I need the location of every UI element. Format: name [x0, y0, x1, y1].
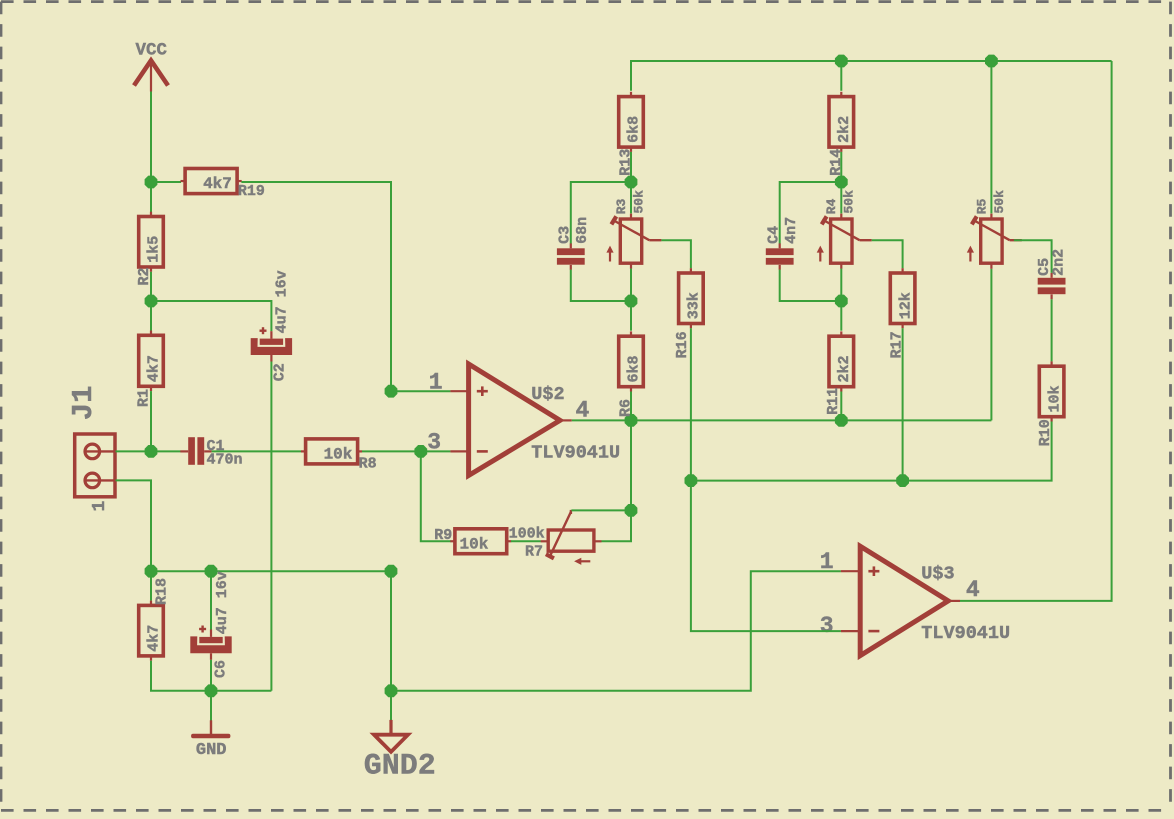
wire node to R2 top: [150, 182, 152, 212]
wire R13 bottom to node: [630, 152, 632, 182]
wire U$2 output rail: [572, 419, 992, 421]
svg-text:1: 1: [90, 501, 110, 512]
svg-text:C4: C4: [766, 226, 783, 244]
resistor R18 4k7: [139, 578, 171, 661]
wire R16 bottom to rail: [690, 328, 692, 480]
junction R3/R6/C3 node: [625, 295, 638, 308]
wire top rail: [631, 61, 1112, 91]
wire U$3 output to top rail: [960, 61, 1112, 601]
svg-text:3: 3: [427, 429, 441, 455]
svg-text:R19: R19: [238, 183, 265, 200]
wire bottom rail: [151, 570, 391, 572]
svg-text:10k: 10k: [1046, 385, 1063, 412]
capacitor C2 4u7 16v: [251, 270, 292, 381]
junction GND2 node: [385, 684, 398, 697]
svg-text:C6: C6: [213, 660, 230, 678]
wire R1 bottom to J1 node: [150, 391, 152, 451]
junction output/R11 node: [835, 414, 848, 427]
svg-text:4k7: 4k7: [146, 625, 163, 652]
wire rail down to GND2 node: [390, 571, 392, 691]
svg-text:TLV9041U: TLV9041U: [921, 623, 1010, 644]
wire R9 to R7: [511, 540, 541, 542]
svg-text:TLV9041U: TLV9041U: [531, 442, 620, 463]
op-amp U$2 TLV9041U: [450, 364, 620, 476]
wire VCC to R2/R19 node: [150, 92, 152, 183]
wire node to C4 top: [780, 182, 842, 244]
ground symbol GND: [191, 720, 230, 760]
potentiometer R4 50k: [817, 190, 872, 269]
junction node at U$2 pin1 riser: [385, 385, 398, 398]
svg-text:C3: C3: [557, 226, 574, 244]
resistor R16 33k: [674, 268, 703, 358]
wire node to C1: [151, 450, 181, 452]
connector J1: [67, 385, 115, 511]
svg-text:50k: 50k: [992, 190, 1007, 214]
svg-text:R3: R3: [614, 198, 629, 214]
svg-text:J1: J1: [67, 385, 100, 420]
resistor R10 10k: [1037, 361, 1064, 446]
wire R8 to U$2 pin3: [362, 450, 450, 452]
svg-text:50k: 50k: [631, 190, 646, 214]
wire C5 bottom to R10: [1051, 299, 1053, 361]
ground symbol GND2: [364, 720, 436, 784]
svg-text:U$3: U$3: [921, 563, 954, 584]
svg-text:R18: R18: [154, 578, 171, 605]
junction VCC node: [145, 176, 158, 189]
svg-text:GND: GND: [196, 741, 227, 760]
svg-text:1: 1: [820, 549, 834, 575]
wire C3 bottom to node: [571, 270, 631, 301]
svg-text:2k2: 2k2: [836, 355, 853, 382]
svg-text:1: 1: [429, 369, 443, 395]
junction R17 rail node: [896, 474, 909, 487]
wire C4 bottom to node: [780, 270, 842, 301]
wire node to R11 top: [840, 301, 842, 331]
capacitor C1 470n: [180, 437, 242, 468]
wire R11 bottom to output rail: [840, 392, 842, 421]
svg-text:4n7: 4n7: [783, 217, 800, 244]
junction R13/R3/C3 node: [625, 176, 638, 189]
junction rail at R18: [145, 565, 158, 578]
svg-text:VCC: VCC: [136, 40, 168, 60]
wire pin3 node down to R9: [421, 451, 451, 541]
wire R3 wiper to R16: [661, 240, 691, 268]
svg-text:4k7: 4k7: [146, 355, 163, 382]
svg-text:R16: R16: [674, 331, 691, 358]
junction output/R6 node: [625, 414, 638, 427]
wire R10 bottom to R16 rail: [691, 422, 1052, 481]
junction feedback node at pin3: [414, 445, 427, 458]
junction R7 wiper node: [625, 504, 638, 517]
wire node to R1 top: [150, 301, 152, 331]
svg-text:10k: 10k: [460, 535, 489, 553]
potentiometer R5 50k: [967, 190, 1022, 269]
wire node to R4 top: [840, 182, 842, 213]
junction top rail at R14: [835, 55, 848, 68]
wire R5 wiper to C5: [1014, 240, 1052, 273]
wire C6 bottom to loop: [210, 660, 212, 691]
svg-text:2n2: 2n2: [1050, 249, 1067, 276]
svg-text:4k7: 4k7: [203, 175, 232, 193]
wire top rail to R14: [840, 61, 842, 91]
wire R3 bottom to node: [630, 269, 632, 301]
op-amp U$3 TLV9041U: [841, 546, 1010, 655]
resistor R11 2k2: [825, 331, 853, 414]
wire R7 right to output riser: [602, 420, 632, 541]
resistor R17 12k: [889, 268, 915, 358]
svg-text:GND2: GND2: [364, 750, 436, 784]
junction R16 rail node: [685, 474, 698, 487]
svg-text:R7: R7: [525, 544, 543, 561]
svg-text:6k8: 6k8: [626, 355, 643, 382]
svg-text:1k5: 1k5: [146, 236, 163, 263]
junction R14/R4/C4 node: [835, 176, 848, 189]
svg-text:C2: C2: [271, 363, 288, 381]
wire node to R19 left: [151, 181, 181, 183]
junction R4/R11/C4 node: [835, 295, 848, 308]
junction top rail at R5: [985, 55, 998, 68]
wire node to C3 top: [571, 182, 631, 244]
resistor R2 1k5: [136, 212, 163, 286]
junction rail at C6: [205, 565, 218, 578]
wire R19 to U$2 pin1: [241, 182, 450, 391]
resistor R1 4k7: [136, 331, 164, 408]
wire R7 wiper to output riser: [571, 509, 631, 511]
svg-text:33k: 33k: [686, 292, 703, 319]
junction R2/R1/C2 node: [145, 295, 158, 308]
potentiometer R7 100k: [509, 510, 602, 565]
capacitor C4 4n7: [766, 217, 801, 270]
svg-text:6k8: 6k8: [626, 116, 643, 143]
wire output rail up to R5 bottom: [990, 269, 992, 421]
wire rail to R18 top: [150, 571, 152, 600]
svg-text:4u7 16v: 4u7 16v: [214, 571, 231, 634]
wire C2 bottom to ground loop: [270, 362, 272, 691]
resistor R6 6k8: [617, 331, 643, 417]
resistor R19 4k7: [181, 169, 265, 200]
wire J1 pin1 to node: [116, 450, 152, 452]
resistor R8 10k: [301, 439, 377, 472]
wire R16 rail to U$3 pin3: [691, 481, 841, 631]
potentiometer R3 50k: [606, 190, 661, 269]
wire R14 bottom to node: [840, 152, 842, 182]
wire node to C2 top: [151, 301, 271, 331]
svg-text:50k: 50k: [842, 190, 857, 214]
resistor R13 6k8: [618, 92, 644, 176]
svg-text:3: 3: [820, 613, 834, 639]
wire GND2 node to U$3 pin1: [391, 571, 841, 691]
svg-text:R9: R9: [434, 527, 452, 544]
svg-text:2k2: 2k2: [836, 116, 853, 143]
wire R6 bottom to output rail: [630, 392, 632, 421]
junction rail at GND2 riser: [385, 565, 398, 578]
svg-text:470n: 470n: [207, 451, 243, 468]
wire R18 bottom loop to C2 column: [151, 661, 271, 691]
svg-text:R4: R4: [824, 198, 839, 214]
supply symbol VCC: [134, 40, 168, 91]
svg-text:10k: 10k: [324, 446, 353, 464]
svg-text:4: 4: [966, 577, 980, 603]
svg-text:U$2: U$2: [531, 384, 564, 405]
wire top rail to R5: [990, 61, 992, 213]
svg-text:100k: 100k: [509, 526, 545, 543]
svg-text:12k: 12k: [897, 292, 914, 319]
wire R17 bottom to rail: [902, 328, 904, 480]
svg-text:R8: R8: [359, 455, 377, 472]
wire node to R6 top: [630, 301, 632, 331]
svg-text:R5: R5: [974, 198, 989, 214]
svg-text:68n: 68n: [574, 217, 591, 244]
wire J1 pin2 to bottom rail: [116, 480, 152, 571]
svg-text:R11: R11: [825, 388, 842, 415]
wire R4 wiper to R17: [872, 240, 903, 268]
wire R4 bottom to node: [840, 269, 842, 301]
junction J1/R1/C1 node: [145, 445, 158, 458]
capacitor C3 68n: [557, 217, 592, 270]
resistor R9 10k: [434, 527, 511, 554]
wire GND2 node down: [390, 691, 392, 720]
wire C6 node to GND: [210, 691, 212, 721]
wire node to R3 top: [630, 182, 632, 213]
wire C1 to R8: [212, 450, 302, 452]
svg-text:4u7 16v: 4u7 16v: [273, 270, 290, 333]
wire rail to C6 top: [210, 571, 212, 629]
capacitor C5 2n2: [1036, 249, 1067, 299]
wire R2 bottom to node: [150, 272, 152, 301]
capacitor C6 4u7 16v: [190, 571, 231, 678]
junction ground loop at C6: [205, 684, 218, 697]
resistor R14 2k2: [828, 92, 854, 176]
